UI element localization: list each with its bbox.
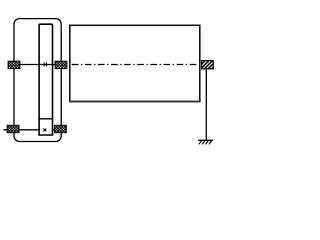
mass box divider (38, 118, 53, 120)
anchor hatch box (202, 61, 214, 69)
bottom axis wire right stub (53, 129, 61, 131)
bearing block S1 (8, 61, 20, 68)
ground wire (205, 69, 207, 141)
bottom axis wire (4, 129, 39, 131)
bearing block S2 (55, 61, 67, 68)
machine frame rectangle (70, 25, 200, 101)
frame bottom thick edge (69, 101, 201, 103)
coupling ticks (44, 63, 46, 67)
bearing block S4 (55, 125, 67, 132)
guide slot (39, 24, 52, 135)
carriage body outline (14, 19, 61, 142)
mass box x-mark (43, 129, 46, 132)
bearing block S3 (7, 125, 19, 132)
top axis wire (8, 64, 61, 66)
ground (198, 140, 213, 144)
centerline dash-dot (72, 64, 197, 66)
